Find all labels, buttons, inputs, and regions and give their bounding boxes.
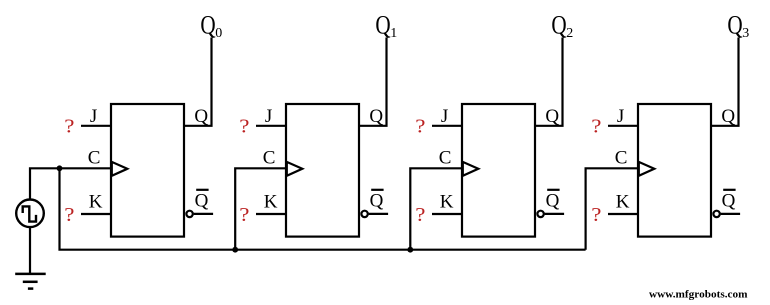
wire Q output U3 up to node Q2 (535, 38, 563, 126)
wire J input stub U2 (256, 125, 286, 127)
wire junction down to bottom clock rail and along rail (60, 168, 586, 249)
svg-text:Q: Q (200, 10, 215, 39)
svg-text:C: C (615, 147, 628, 168)
U1 Qbar inverter bubble (186, 211, 192, 217)
ground (15, 274, 46, 289)
svg-text:?: ? (239, 116, 249, 138)
svg-text:?: ? (239, 204, 249, 226)
wire clock riser from rail to C input U2 (235, 168, 286, 249)
svg-text:?: ? (415, 204, 425, 226)
svg-text:K: K (616, 191, 630, 212)
svg-text:0: 0 (215, 26, 222, 41)
wire K input stub U2 (256, 213, 286, 215)
svg-text:Q: Q (546, 191, 560, 212)
U2 Qbar inverter bubble (361, 211, 367, 217)
svg-text:Q: Q (727, 10, 742, 39)
U4 clock edge-trigger triangle (639, 162, 655, 176)
svg-text:K: K (440, 191, 454, 212)
wire Qbar stub U1 (194, 213, 214, 215)
svg-text:Q: Q (545, 106, 559, 127)
wire clock riser from rail to C input U4 (586, 168, 638, 249)
wire Q output U2 up to node Q1 (359, 38, 387, 126)
svg-text:Q: Q (370, 191, 384, 212)
U3 Qbar inverter bubble (537, 211, 543, 217)
wire K input stub U1 (81, 213, 111, 215)
node rail junction for U2 clock riser (232, 247, 238, 253)
wire Qbar stub U4 (721, 213, 741, 215)
wire Qbar stub U2 (369, 213, 389, 215)
svg-text:J: J (617, 106, 624, 127)
wire Qbar stub U3 (545, 213, 565, 215)
svg-text:?: ? (64, 204, 74, 226)
JK flip-flop U1 body (111, 104, 184, 237)
U2 clock edge-trigger triangle (287, 162, 303, 176)
svg-text:J: J (265, 106, 272, 127)
wire J input stub U1 (81, 125, 111, 127)
node rail junction for U3 clock riser (407, 247, 413, 253)
svg-text:K: K (264, 191, 278, 212)
wire J input stub U3 (432, 125, 462, 127)
svg-text:?: ? (415, 116, 425, 138)
svg-text:Q: Q (551, 10, 566, 39)
svg-text:www.mfgrobots.com: www.mfgrobots.com (649, 288, 748, 300)
svg-text:J: J (441, 106, 448, 127)
wire J input stub U4 (608, 125, 638, 127)
svg-text:C: C (439, 147, 452, 168)
U1 clock edge-trigger triangle (112, 162, 128, 176)
svg-text:Q: Q (195, 191, 209, 212)
svg-text:?: ? (64, 116, 74, 138)
JK flip-flop U3 body (462, 104, 535, 237)
svg-text:J: J (90, 106, 97, 127)
svg-text:Q: Q (721, 106, 735, 127)
JK flip-flop U4 body (638, 104, 711, 237)
svg-text:2: 2 (566, 26, 573, 41)
svg-text:Q: Q (194, 106, 208, 127)
svg-text:Q: Q (369, 106, 383, 127)
svg-text:Q: Q (375, 10, 390, 39)
clock source V1 (square-wave generator) (16, 200, 44, 228)
JK flip-flop U2 body (286, 104, 359, 237)
wire K input stub U3 (432, 213, 462, 215)
svg-text:?: ? (591, 204, 601, 226)
svg-text:C: C (263, 147, 276, 168)
wire clock bottom terminal to ground (29, 227, 31, 274)
U3 clock edge-trigger triangle (463, 162, 479, 176)
svg-text:K: K (89, 191, 103, 212)
wire K input stub U4 (608, 213, 638, 215)
node clock bus junction (57, 165, 63, 171)
U4 Qbar inverter bubble (713, 211, 719, 217)
wire clock output up and right to FF1 C input (30, 168, 111, 199)
svg-text:3: 3 (742, 26, 749, 41)
svg-text:Q: Q (722, 191, 736, 212)
svg-text:1: 1 (390, 26, 397, 41)
wire Q output U4 up to node Q3 (711, 38, 739, 126)
wire Q output U1 up to node Q0 (184, 38, 212, 126)
svg-text:C: C (88, 147, 101, 168)
svg-text:?: ? (591, 116, 601, 138)
wire clock riser from rail to C input U3 (410, 168, 462, 249)
